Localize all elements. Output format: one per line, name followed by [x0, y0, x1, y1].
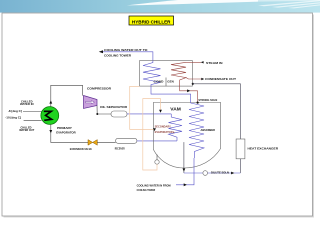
- arrow down into vessel (spray A): [153, 128, 156, 131]
- label cooling water out: [104, 48, 148, 58]
- wire cooling water in: [176, 158, 194, 185]
- svg-text:HEAT EXCHANGER: HEAT EXCHANGER: [248, 147, 280, 151]
- arrow down on drain: [183, 168, 186, 171]
- label primary evaporator: [56, 126, 76, 134]
- vessel VAM shell: [153, 103, 220, 169]
- wire hot gas to VAM (blue): [127, 113, 171, 115]
- banner white swoosh: [127, 0, 258, 5]
- heat exchanger U1: [236, 139, 245, 159]
- svg-text:COOLING TOWER: COOLING TOWER: [104, 54, 132, 58]
- svg-text:OIL SEPARATOR: OIL SEPARATOR: [100, 105, 128, 109]
- arrow down spray B: [159, 110, 162, 113]
- wire dilute soln to heat exchanger (top, dark): [192, 84, 240, 139]
- coil COND (blue zigzag): [143, 61, 161, 87]
- wire strong solution (maroon): [180, 86, 198, 102]
- wire receiver to secondary coil (blue): [137, 140, 177, 142]
- divider COND|GEN: [165, 78, 167, 87]
- svg-text:EVAPORATOR►: EVAPORATOR►: [155, 130, 176, 134]
- wire pump suction stub: [156, 155, 158, 160]
- arrow right on strong soln: [187, 89, 190, 92]
- arrow inside compressor: [86, 101, 95, 104]
- coil GEN (maroon zigzag): [171, 62, 186, 86]
- svg-text:EXPANSION VALVE: EXPANSION VALVE: [70, 147, 92, 151]
- box condenser-generator shell: [140, 61, 193, 87]
- wire suction: evaporator to compressor: [51, 85, 83, 106]
- junction dot cond box corner: [192, 83, 194, 85]
- svg-text:HYBRID CHILLER: HYBRID CHILLER: [132, 19, 171, 24]
- svg-text:COMPRESSOR: COMPRESSOR: [87, 87, 112, 91]
- wire steam in: [186, 61, 201, 63]
- arrow cooling water out (left): [99, 50, 103, 53]
- wire condensate from COND to vessel (peach): [130, 86, 155, 129]
- svg-text:SECONDARY: SECONDARY: [155, 124, 171, 128]
- wire discharge: compressor to oil separator: [97, 106, 111, 115]
- expansion valve (bowtie): [88, 140, 97, 146]
- wire chilled water out: [24, 119, 42, 121]
- wire dilute soln (blue, bottom): [184, 172, 241, 174]
- arrow right on dilute line: [231, 172, 234, 175]
- svg-text:VAM: VAM: [170, 106, 181, 111]
- title box HYBRID CHILLER: [129, 16, 174, 25]
- svg-text:GEN: GEN: [167, 80, 174, 84]
- svg-text:COOLING WATER IN FROM: COOLING WATER IN FROM: [137, 183, 171, 187]
- receiver vessel: [116, 138, 137, 143]
- coil inside evaporator: [44, 111, 52, 120]
- primary evaporator (green circle): [41, 107, 59, 125]
- wire condensate out: [186, 78, 202, 79]
- wire valve to receiver: [97, 141, 115, 143]
- wire cooling water out (COND top to arrow): [100, 52, 153, 61]
- svg-text:WATER IN: WATER IN: [20, 102, 34, 106]
- arrow down on evaporator outlet: [49, 130, 52, 133]
- svg-text:-8 [deg C]: -8 [deg C]: [8, 109, 22, 113]
- svg-text:STEAM IN: STEAM IN: [206, 61, 223, 65]
- svg-text:DILUTE SOLN: DILUTE SOLN: [211, 171, 229, 175]
- svg-text:CONDENSATE OUT: CONDENSATE OUT: [205, 77, 236, 81]
- label SECONDARY EVAPORATOR: [155, 124, 176, 134]
- wire spray loop (peach): [143, 99, 161, 170]
- svg-text:ABSORBER: ABSORBER: [201, 128, 216, 132]
- arrow up on suction: [49, 100, 52, 103]
- label chilled water in: [20, 99, 34, 106]
- wire vessel drain: [183, 142, 185, 173]
- oil separator vessel: [111, 111, 127, 117]
- arrow right cooling in: [184, 183, 187, 186]
- compressor Q (trapezoid): [84, 96, 98, 109]
- svg-text:STRONG SOLN: STRONG SOLN: [198, 98, 217, 102]
- svg-text:-10 [deg C]: -10 [deg C]: [5, 116, 21, 120]
- svg-text:WATER OUT: WATER OUT: [19, 128, 34, 132]
- arrow condensate out: [201, 78, 204, 81]
- svg-text:COOLING WATER OUT TO: COOLING WATER OUT TO: [104, 48, 148, 52]
- wire chilled water in: [23, 111, 42, 113]
- svg-text:RECEIVER: RECEIVER: [115, 147, 126, 151]
- wire evaporator outlet down: [51, 124, 88, 142]
- label chilled water out: [19, 125, 34, 132]
- svg-text:COND: COND: [154, 80, 164, 84]
- coil absorber (blue zigzag): [189, 103, 204, 158]
- coil secondary evaporator (blue zigzag): [169, 114, 183, 141]
- label cooling water in: [137, 183, 171, 192]
- junction dot vessel top: [197, 102, 199, 104]
- pump P1 spray: [155, 160, 159, 164]
- svg-text:COOLING TOWER: COOLING TOWER: [137, 188, 156, 192]
- svg-text:EVAPORATOR: EVAPORATOR: [56, 130, 76, 134]
- banner corner streaks: [258, 0, 320, 8]
- top banner band: [0, 0, 320, 13]
- arrow steam in (left): [201, 61, 204, 63]
- wire cooling water: COND outlet down to absorber top (blue): [151, 86, 191, 103]
- pump P2 dilute soln: [203, 171, 208, 176]
- wire heat exchanger bottom to dilute line: [239, 159, 241, 173]
- junction dot discharge: [96, 113, 98, 115]
